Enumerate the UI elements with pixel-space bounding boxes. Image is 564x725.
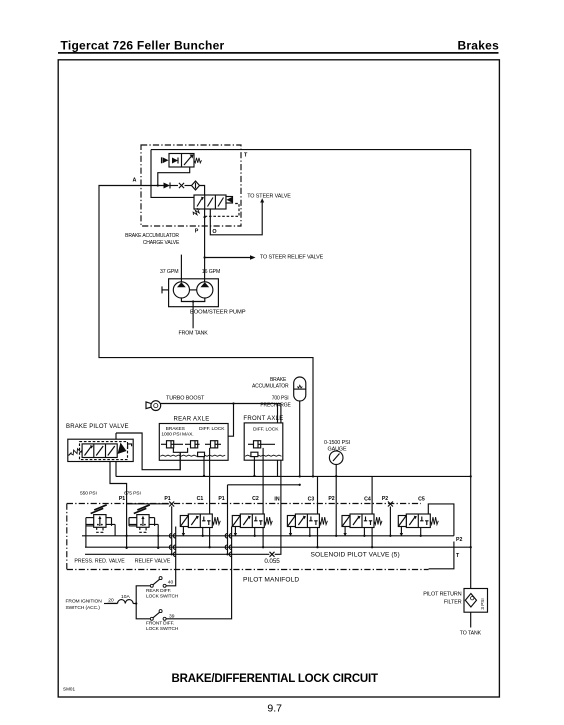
svg-text:CHARGE VALVE: CHARGE VALVE xyxy=(143,240,180,246)
svg-text:C4: C4 xyxy=(364,497,371,503)
svg-text:REAR DIFF.: REAR DIFF. xyxy=(146,588,171,594)
svg-text:700 PSI: 700 PSI xyxy=(272,396,289,402)
svg-text:FROM TANK: FROM TANK xyxy=(179,331,209,337)
svg-text:C2: C2 xyxy=(252,496,259,502)
svg-text:IN: IN xyxy=(274,497,279,503)
svg-text:P1: P1 xyxy=(119,496,125,502)
svg-text:FRONT AXLE: FRONT AXLE xyxy=(243,416,283,422)
svg-text:550 PSI: 550 PSI xyxy=(80,491,97,497)
svg-text:SOLENOID PILOT VALVE (5): SOLENOID PILOT VALVE (5) xyxy=(311,552,400,559)
svg-text:DIFF. LOCK: DIFF. LOCK xyxy=(253,427,279,433)
svg-text:39: 39 xyxy=(169,613,175,619)
svg-text:P2: P2 xyxy=(382,496,388,502)
svg-text:TO STEER RELIEF VALVE: TO STEER RELIEF VALVE xyxy=(260,255,324,261)
svg-text:GAUGE: GAUGE xyxy=(328,446,347,452)
svg-text:10A: 10A xyxy=(121,594,130,600)
svg-text:Brakes: Brakes xyxy=(457,38,499,52)
svg-text:TO STEER VALVE: TO STEER VALVE xyxy=(247,194,291,200)
svg-text:LOCK SWITCH: LOCK SWITCH xyxy=(146,593,179,599)
svg-text:9.7: 9.7 xyxy=(267,703,282,715)
svg-text:C3: C3 xyxy=(308,497,315,503)
svg-text:16 GPM: 16 GPM xyxy=(202,269,220,275)
svg-text:TURBO BOOST: TURBO BOOST xyxy=(166,396,205,402)
svg-text:C5: C5 xyxy=(418,497,425,503)
svg-text:PRESS. RED. VALVE: PRESS. RED. VALVE xyxy=(74,559,125,565)
svg-text:C1: C1 xyxy=(197,496,204,502)
svg-text:3 PSI: 3 PSI xyxy=(480,598,485,609)
svg-text:P1: P1 xyxy=(218,496,224,502)
svg-text:DIFF. LOCK: DIFF. LOCK xyxy=(199,426,225,432)
svg-text:1000 PSI MAX.: 1000 PSI MAX. xyxy=(161,432,193,438)
svg-text:ACCUMULATOR: ACCUMULATOR xyxy=(252,384,289,390)
svg-text:O: O xyxy=(212,229,216,235)
svg-text:Tigercat 726 Feller Buncher: Tigercat 726 Feller Buncher xyxy=(61,38,225,52)
svg-text:FROM IGNITION: FROM IGNITION xyxy=(66,599,103,605)
svg-text:BRAKES: BRAKES xyxy=(166,426,186,432)
svg-text:A: A xyxy=(133,178,137,184)
svg-text:PILOT RETURN: PILOT RETURN xyxy=(423,592,461,598)
svg-text:BRAKE/DIFFERENTIAL LOCK CIRCUI: BRAKE/DIFFERENTIAL LOCK CIRCUIT xyxy=(172,673,379,685)
svg-text:P2: P2 xyxy=(456,537,462,543)
svg-text:BRAKE PILOT VALVE: BRAKE PILOT VALVE xyxy=(66,424,129,430)
svg-text:REAR AXLE: REAR AXLE xyxy=(173,417,209,423)
svg-text:P: P xyxy=(195,229,199,235)
svg-text:BRAKE ACCUMULATOR: BRAKE ACCUMULATOR xyxy=(125,233,179,239)
svg-text:675 PSI: 675 PSI xyxy=(124,491,141,497)
svg-text:TO TANK: TO TANK xyxy=(460,631,482,637)
svg-text:P1: P1 xyxy=(164,496,170,502)
svg-text:SM01: SM01 xyxy=(63,687,75,692)
svg-text:FILTER: FILTER xyxy=(444,600,462,606)
svg-text:20: 20 xyxy=(108,598,114,604)
svg-text:P2: P2 xyxy=(328,496,334,502)
svg-text:0-1500 PSI: 0-1500 PSI xyxy=(324,440,350,446)
svg-text:SWITCH (ACC.): SWITCH (ACC.) xyxy=(66,605,101,611)
svg-text:0.055: 0.055 xyxy=(264,558,280,565)
svg-text:PILOT MANIFOLD: PILOT MANIFOLD xyxy=(243,577,299,584)
svg-text:37 GPM: 37 GPM xyxy=(160,269,178,275)
svg-text:40: 40 xyxy=(168,579,174,585)
svg-text:BOOM/STEER PUMP: BOOM/STEER PUMP xyxy=(190,310,246,316)
svg-text:RELIEF VALVE: RELIEF VALVE xyxy=(135,559,171,565)
svg-text:BRAKE: BRAKE xyxy=(270,377,287,383)
svg-text:FRONT DIFF.: FRONT DIFF. xyxy=(146,621,174,627)
svg-text:LOCK SWITCH: LOCK SWITCH xyxy=(146,626,179,632)
